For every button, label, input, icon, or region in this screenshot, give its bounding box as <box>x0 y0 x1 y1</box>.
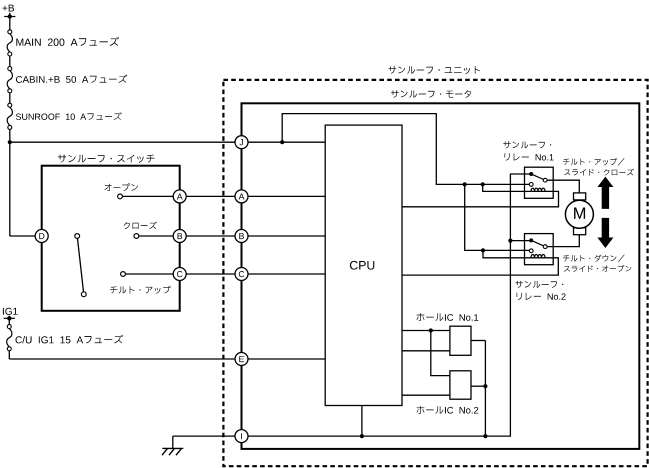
relay No.2 arm <box>533 241 544 246</box>
junction relay2 coil branch <box>481 248 485 252</box>
junction hall/ground bus <box>483 434 487 438</box>
wire branch to relay1 coil <box>483 184 548 191</box>
wire switch B to unit node B <box>186 235 235 237</box>
fuse C/U IG1 15 A <box>7 325 11 329</box>
label tilt-down / slide-open <box>563 255 625 262</box>
label tilt-up <box>110 286 171 294</box>
node A <box>235 190 248 203</box>
relay No.1 common contact <box>529 172 533 176</box>
switch contact tilt-up <box>121 272 126 277</box>
label sunroof switch <box>58 155 155 163</box>
relay No.2 common contact <box>529 238 533 242</box>
ground wire to node I <box>173 435 236 437</box>
label tilt-up / slide-close <box>563 158 625 165</box>
relay No.1 coil <box>531 188 545 191</box>
junction CPU ground <box>360 434 364 438</box>
junction relay feed / relay2 branch <box>463 182 467 186</box>
node J <box>235 136 248 149</box>
relay No.2 coil <box>531 254 545 257</box>
label close <box>124 222 157 230</box>
fuse MAIN 200 A <box>8 30 12 34</box>
junction relay1 coil branch <box>481 182 485 186</box>
label sunroof motor <box>391 90 471 98</box>
CPU U1 <box>325 125 402 405</box>
node A (switch) <box>173 190 186 203</box>
junction hall branch <box>429 328 433 332</box>
node E <box>235 353 248 366</box>
relay No.1 NO contact <box>543 178 547 182</box>
wire J branch to relay feed <box>282 114 529 185</box>
relay No.2 box <box>525 234 554 265</box>
sunroof motor box <box>242 103 640 449</box>
junction +B rail / node J wire <box>8 140 12 144</box>
wire node E to CPU <box>248 358 326 360</box>
hall IC No.1 <box>450 326 471 355</box>
sunroof unit dashed box <box>223 80 647 466</box>
wire CPU to hall IC1 (a) <box>402 330 450 332</box>
label hall IC No.2 <box>417 406 479 414</box>
node B <box>235 230 248 243</box>
wire node B to CPU <box>248 235 326 237</box>
label CPU <box>350 261 374 270</box>
wire hall IC1 output <box>471 340 485 342</box>
arrow up (tilt-up/slide-close) <box>597 177 613 209</box>
IG1 terminal <box>8 316 10 325</box>
junction relay2 common <box>508 239 512 243</box>
wire +B rail to node J <box>10 141 236 143</box>
wire branch to relay2 NC contact <box>465 184 530 250</box>
node C (switch) <box>173 268 186 281</box>
motor terminal top <box>574 193 586 200</box>
relay No.1 NC contact <box>529 183 533 187</box>
label hall IC No.1 <box>417 313 479 321</box>
wire CPU ground <box>361 406 363 437</box>
sunroof switch box <box>42 166 180 311</box>
node B (switch) <box>173 230 186 243</box>
wire <box>9 56 11 67</box>
wire CPU to relay1 coil <box>402 191 559 206</box>
node D <box>35 230 48 243</box>
label sunroof unit <box>388 66 480 74</box>
wire relay2 NO to motor <box>547 235 579 247</box>
junction J branch <box>280 140 284 144</box>
hall IC No.2 <box>450 371 471 399</box>
wire node C to CPU <box>248 273 326 275</box>
motor M <box>565 200 593 228</box>
switch lever <box>75 234 80 239</box>
wire CPU to hall IC1 (b) <box>402 350 450 352</box>
fuse SUNROOF 10 A <box>8 103 12 107</box>
relay No.1 arm <box>533 175 544 180</box>
wire hall outputs to ground bus <box>484 341 486 437</box>
wire branch to hall IC2 <box>431 331 450 376</box>
node I <box>235 430 248 443</box>
+B terminal <box>9 13 11 30</box>
wire node I ground bus <box>248 174 530 436</box>
junction hall outputs <box>483 384 487 388</box>
label sunroof relay No.2 <box>515 281 563 288</box>
supply IG1 label <box>3 308 18 315</box>
relay No.2 NO contact <box>543 245 547 249</box>
relay No.2 NC contact <box>529 249 533 253</box>
wire node A to CPU <box>248 195 326 197</box>
wire switch A to unit node A <box>186 195 235 197</box>
wire <box>9 93 11 103</box>
supply +B label <box>3 5 15 12</box>
wire switch C to unit node C <box>186 273 235 275</box>
switch contact close <box>134 234 139 239</box>
wire +B rail down to switch D <box>9 129 11 236</box>
wire node J to CPU <box>248 141 326 143</box>
wire IG1 to node E <box>8 351 10 359</box>
wire CPU to relay2 coil <box>402 258 558 275</box>
wire branch to relay2 coil <box>483 250 547 257</box>
motor terminal bottom <box>574 228 586 235</box>
switch contact open <box>118 194 123 199</box>
wire relay1 NO to motor <box>547 180 579 193</box>
arrow down (tilt-down/slide-open) <box>597 218 613 248</box>
label sunroof relay No.1 <box>503 141 551 148</box>
wire hall IC2 output <box>471 385 485 387</box>
wire to relay2 common <box>510 240 529 242</box>
label open <box>104 183 138 191</box>
relay No.1 box <box>525 167 554 198</box>
fuse CABIN.+B 50 A <box>8 67 12 71</box>
ground <box>172 436 174 448</box>
wire CPU to hall IC2 (b) <box>402 394 450 396</box>
node C <box>235 268 248 281</box>
